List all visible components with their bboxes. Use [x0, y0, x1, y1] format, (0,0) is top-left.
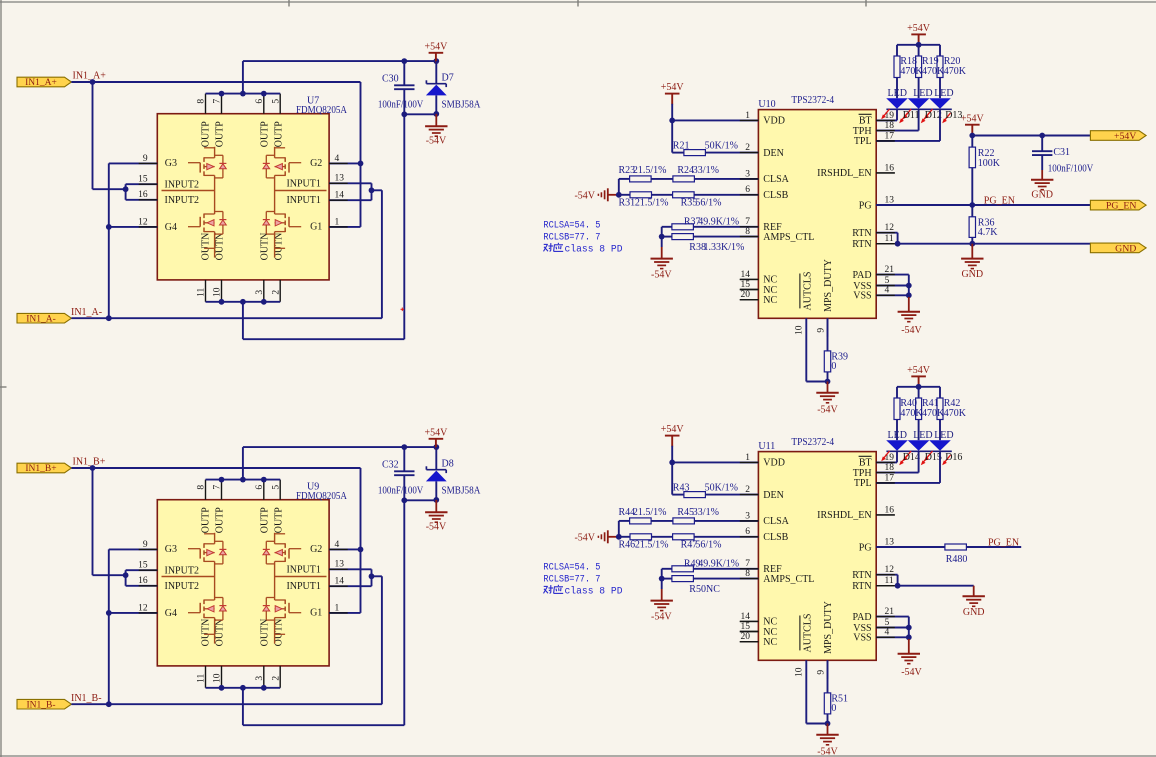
svg-text:INPUT2: INPUT2 [165, 581, 199, 592]
svg-text:-54V: -54V [651, 611, 672, 622]
svg-text:OUTN: OUTN [260, 233, 271, 261]
svg-text:IN1_B-: IN1_B- [71, 693, 102, 704]
svg-text:5: 5 [885, 618, 890, 628]
svg-text:class 8 PD: class 8 PD [565, 586, 623, 598]
svg-text:17: 17 [885, 473, 895, 483]
svg-text:1: 1 [745, 453, 750, 463]
svg-text:G4: G4 [165, 222, 177, 233]
svg-text:GND: GND [963, 607, 985, 618]
svg-text:5: 5 [271, 485, 281, 490]
svg-text:10: 10 [795, 325, 805, 335]
svg-text:VDD: VDD [763, 116, 785, 127]
svg-text:6: 6 [255, 485, 265, 490]
svg-text:IN1_A-: IN1_A- [71, 307, 102, 318]
svg-text:9: 9 [816, 328, 826, 333]
svg-text:3: 3 [745, 511, 750, 521]
svg-text:R480: R480 [946, 554, 968, 565]
svg-text:20: 20 [741, 632, 751, 642]
svg-text:4.7K: 4.7K [978, 227, 999, 238]
svg-text:3: 3 [745, 169, 750, 179]
svg-text:11: 11 [885, 234, 894, 244]
svg-text:RCLSA=54. 5: RCLSA=54. 5 [543, 562, 600, 574]
svg-text:20: 20 [741, 290, 751, 300]
svg-text:PAD: PAD [853, 270, 872, 281]
svg-text:IN1_B+: IN1_B+ [25, 464, 56, 474]
svg-text:8: 8 [197, 99, 207, 104]
svg-text:RTN: RTN [852, 581, 871, 592]
svg-text:6: 6 [745, 527, 750, 537]
svg-text:7: 7 [213, 485, 223, 490]
svg-text:10: 10 [213, 287, 223, 297]
svg-text:33/1%: 33/1% [693, 507, 719, 518]
svg-text:SMBJ58A: SMBJ58A [442, 100, 482, 111]
svg-text:FDMQ8205A: FDMQ8205A [296, 105, 348, 116]
svg-text:G1: G1 [310, 608, 322, 619]
svg-text:100nF/100V: 100nF/100V [1048, 164, 1094, 175]
svg-text:7: 7 [745, 217, 750, 227]
svg-text:PG: PG [859, 200, 872, 211]
svg-text:G1: G1 [310, 222, 322, 233]
svg-text:12: 12 [885, 565, 895, 575]
svg-text:AUTCLS: AUTCLS [802, 272, 813, 311]
svg-text:21: 21 [885, 265, 895, 275]
svg-text:56/1%: 56/1% [695, 540, 721, 551]
svg-text:LED: LED [888, 430, 907, 441]
svg-text:470K: 470K [944, 66, 967, 77]
svg-text:OUTN: OUTN [214, 619, 225, 647]
svg-text:FDMQ8205A: FDMQ8205A [296, 491, 348, 502]
svg-text:+54V: +54V [424, 427, 448, 438]
svg-text:7: 7 [213, 99, 223, 104]
svg-text:5: 5 [271, 99, 281, 104]
svg-text:INPUT1: INPUT1 [286, 565, 320, 576]
svg-text:18: 18 [885, 121, 895, 131]
svg-text:56/1%: 56/1% [695, 198, 721, 209]
svg-text:PG_EN: PG_EN [988, 538, 1019, 549]
svg-text:C32: C32 [382, 460, 399, 471]
svg-text:LED: LED [913, 430, 932, 441]
svg-text:1.33K/1%: 1.33K/1% [704, 242, 745, 253]
svg-text:-54V: -54V [901, 667, 922, 678]
svg-text:+54V: +54V [661, 82, 685, 93]
svg-text:15: 15 [741, 622, 751, 632]
svg-text:DEN: DEN [763, 490, 784, 501]
svg-text:AMPS_CTL: AMPS_CTL [763, 574, 814, 585]
svg-text:MPS_DUTY: MPS_DUTY [823, 259, 834, 312]
svg-text:470K: 470K [944, 408, 967, 419]
svg-text:DEN: DEN [763, 148, 784, 159]
svg-text:CLSA: CLSA [763, 516, 789, 527]
svg-text:8: 8 [197, 485, 207, 490]
svg-text:IRSHDL_EN: IRSHDL_EN [817, 168, 871, 179]
svg-text:D13: D13 [945, 110, 962, 121]
svg-text:G3: G3 [165, 544, 177, 555]
svg-text:R50NC: R50NC [689, 584, 720, 595]
svg-text:OUTN: OUTN [260, 619, 271, 647]
svg-text:11: 11 [197, 287, 207, 296]
svg-text:10: 10 [795, 667, 805, 677]
svg-text:+54V: +54V [661, 424, 685, 435]
svg-text:470K: 470K [900, 408, 923, 419]
svg-text:9: 9 [143, 540, 148, 550]
svg-text:LED: LED [888, 88, 907, 99]
svg-text:IRSHDL_EN: IRSHDL_EN [817, 510, 871, 521]
svg-text:6: 6 [745, 185, 750, 195]
svg-text:18: 18 [885, 463, 895, 473]
svg-text:PAD: PAD [853, 612, 872, 623]
svg-text:4: 4 [335, 154, 340, 164]
svg-text:OUTP: OUTP [214, 121, 225, 148]
svg-text:RCLSA=54. 5: RCLSA=54. 5 [543, 220, 600, 232]
svg-text:IN1_A-: IN1_A- [26, 314, 56, 324]
svg-text:AMPS_CTL: AMPS_CTL [763, 232, 814, 243]
svg-text:TPL: TPL [854, 136, 872, 147]
svg-text:3: 3 [255, 290, 265, 295]
svg-text:0: 0 [831, 703, 836, 714]
svg-text:17: 17 [885, 131, 895, 141]
svg-text:4: 4 [335, 540, 340, 550]
svg-text:PG_EN: PG_EN [1106, 201, 1136, 212]
svg-text:G2: G2 [310, 544, 322, 555]
svg-text:R45: R45 [677, 507, 694, 518]
svg-text:14: 14 [741, 612, 751, 622]
svg-text:LED: LED [934, 88, 953, 99]
svg-text:TPS2372-4: TPS2372-4 [791, 437, 834, 448]
svg-text:11: 11 [885, 576, 894, 586]
svg-text:470K: 470K [900, 66, 923, 77]
svg-text:OUTP: OUTP [200, 121, 211, 148]
svg-text:470K: 470K [922, 66, 945, 77]
svg-text:1: 1 [335, 217, 340, 227]
svg-text:U10: U10 [758, 99, 775, 110]
svg-text:CLSA: CLSA [763, 174, 789, 185]
svg-text:-54V: -54V [817, 405, 838, 416]
svg-text:13: 13 [885, 537, 895, 547]
svg-text:VSS: VSS [853, 291, 871, 302]
svg-text:TPL: TPL [854, 478, 872, 489]
svg-text:GND: GND [961, 269, 983, 280]
svg-text:INPUT2: INPUT2 [165, 566, 199, 577]
svg-text:IN1_A+: IN1_A+ [25, 78, 57, 88]
svg-text:15: 15 [741, 280, 751, 290]
svg-text:7: 7 [745, 559, 750, 569]
svg-text:INPUT2: INPUT2 [165, 180, 199, 191]
svg-text:2: 2 [745, 485, 750, 495]
svg-text:R46: R46 [619, 540, 636, 551]
svg-text:4: 4 [885, 628, 890, 638]
svg-text:21.5/1%: 21.5/1% [633, 165, 667, 176]
svg-text:5: 5 [885, 276, 890, 286]
svg-text:R21: R21 [673, 141, 690, 152]
svg-text:C30: C30 [382, 74, 399, 85]
svg-text:100nF/100V: 100nF/100V [378, 100, 424, 111]
svg-text:14: 14 [741, 270, 751, 280]
svg-text:16: 16 [885, 505, 895, 515]
svg-text:10: 10 [213, 673, 223, 683]
svg-text:GND: GND [1115, 243, 1136, 254]
svg-text:AUTCLS: AUTCLS [802, 614, 813, 653]
svg-text:14: 14 [335, 191, 345, 201]
svg-text:9: 9 [816, 670, 826, 675]
svg-text:0: 0 [831, 361, 836, 372]
svg-text:CLSB: CLSB [763, 532, 788, 543]
svg-text:21.5/1%: 21.5/1% [635, 198, 669, 209]
svg-text:+54V: +54V [907, 23, 931, 34]
svg-text:16: 16 [885, 163, 895, 173]
svg-text:OUTN: OUTN [214, 233, 225, 261]
svg-text:MPS_DUTY: MPS_DUTY [823, 601, 834, 654]
svg-text:INPUT2: INPUT2 [165, 195, 199, 206]
svg-text:14: 14 [335, 577, 345, 587]
svg-text:2: 2 [745, 143, 750, 153]
svg-text:IN1_B+: IN1_B+ [73, 457, 106, 468]
svg-text:RTN: RTN [852, 570, 871, 581]
svg-text:OUTP: OUTP [214, 507, 225, 534]
svg-text:-54V: -54V [901, 325, 922, 336]
svg-text:-54V: -54V [426, 136, 447, 147]
svg-text:15: 15 [138, 561, 148, 571]
svg-text:NC: NC [763, 637, 777, 648]
svg-text:SMBJ58A: SMBJ58A [442, 486, 482, 497]
svg-text:4: 4 [885, 286, 890, 296]
svg-text:21.5/1%: 21.5/1% [633, 507, 667, 518]
svg-text:15: 15 [138, 175, 148, 185]
svg-text:RCLSB=77. 7: RCLSB=77. 7 [543, 232, 600, 244]
svg-text:LED: LED [913, 88, 932, 99]
svg-text:C31: C31 [1053, 147, 1070, 158]
svg-text:-54V: -54V [651, 269, 672, 280]
svg-text:VSS: VSS [853, 633, 871, 644]
svg-text:+54V: +54V [907, 365, 931, 376]
svg-text:33/1%: 33/1% [693, 165, 719, 176]
svg-text:49.9K/1%: 49.9K/1% [698, 558, 739, 569]
svg-text:6: 6 [255, 99, 265, 104]
svg-text:-54V: -54V [574, 190, 595, 201]
svg-text:CLSB: CLSB [763, 190, 788, 201]
svg-text:OUTP: OUTP [200, 507, 211, 534]
svg-text:U11: U11 [758, 441, 775, 452]
svg-text:-54V: -54V [817, 747, 838, 757]
svg-text:G3: G3 [165, 158, 177, 169]
svg-text:TPS2372-4: TPS2372-4 [791, 95, 834, 106]
svg-text:21.5/1%: 21.5/1% [635, 540, 669, 551]
svg-text:OUTP: OUTP [260, 121, 271, 148]
svg-text:G2: G2 [310, 158, 322, 169]
svg-text:OUTP: OUTP [274, 507, 285, 534]
svg-text:D11: D11 [903, 110, 920, 121]
svg-text:100K: 100K [978, 158, 1001, 169]
svg-text:PG: PG [859, 542, 872, 553]
svg-text:G4: G4 [165, 608, 177, 619]
svg-text:D8: D8 [442, 459, 454, 470]
svg-text:OUTP: OUTP [260, 507, 271, 534]
svg-text:R43: R43 [673, 483, 690, 494]
svg-text:100nF/100V: 100nF/100V [378, 486, 424, 497]
svg-text:50K/1%: 50K/1% [705, 141, 738, 152]
svg-text:49.9K/1%: 49.9K/1% [698, 216, 739, 227]
svg-text:R24: R24 [677, 165, 694, 176]
svg-text:RTN: RTN [852, 228, 871, 239]
svg-text:IN1_A+: IN1_A+ [73, 71, 107, 82]
svg-text:1: 1 [335, 603, 340, 613]
svg-text:1: 1 [745, 111, 750, 121]
svg-text:2: 2 [271, 290, 281, 295]
svg-text:3: 3 [255, 676, 265, 681]
svg-text:12: 12 [138, 217, 148, 227]
svg-text:RTN: RTN [852, 239, 871, 250]
svg-text:OUTP: OUTP [274, 121, 285, 148]
svg-text:OUTN: OUTN [200, 233, 211, 261]
svg-text:LED: LED [934, 430, 953, 441]
svg-text:12: 12 [885, 223, 895, 233]
svg-text:21: 21 [885, 607, 895, 617]
svg-text:2: 2 [271, 676, 281, 681]
svg-text:OUTN: OUTN [200, 619, 211, 647]
svg-text:class 8 PD: class 8 PD [565, 244, 623, 256]
svg-text:-54V: -54V [426, 522, 447, 533]
svg-text:13: 13 [885, 195, 895, 205]
svg-text:PG_EN: PG_EN [984, 195, 1015, 206]
svg-text:INPUT1: INPUT1 [286, 195, 320, 206]
svg-text:470K: 470K [922, 408, 945, 419]
svg-text:VDD: VDD [763, 458, 785, 469]
svg-text:D16: D16 [945, 452, 962, 463]
svg-text:GND: GND [1031, 190, 1053, 201]
svg-text:D14: D14 [903, 452, 920, 463]
svg-text:12: 12 [138, 603, 148, 613]
svg-text:13: 13 [335, 174, 345, 184]
svg-text:8: 8 [745, 569, 750, 579]
svg-text:8: 8 [745, 227, 750, 237]
svg-text:D7: D7 [442, 73, 454, 84]
svg-text:11: 11 [197, 673, 207, 682]
svg-text:RCLSB=77. 7: RCLSB=77. 7 [543, 574, 600, 586]
svg-text:NC: NC [763, 295, 777, 306]
svg-text:16: 16 [138, 190, 148, 200]
svg-text:IN1_B-: IN1_B- [26, 700, 55, 710]
svg-text:INPUT1: INPUT1 [286, 179, 320, 190]
svg-text:16: 16 [138, 576, 148, 586]
svg-text:-54V: -54V [574, 532, 595, 543]
svg-text:INPUT1: INPUT1 [286, 581, 320, 592]
svg-text:+54V: +54V [961, 113, 985, 124]
svg-text:R31: R31 [619, 198, 636, 209]
svg-text:9: 9 [143, 154, 148, 164]
svg-text:+54V: +54V [1114, 131, 1136, 142]
svg-text:13: 13 [335, 560, 345, 570]
svg-text:50K/1%: 50K/1% [705, 483, 738, 494]
svg-text:+54V: +54V [424, 41, 448, 52]
